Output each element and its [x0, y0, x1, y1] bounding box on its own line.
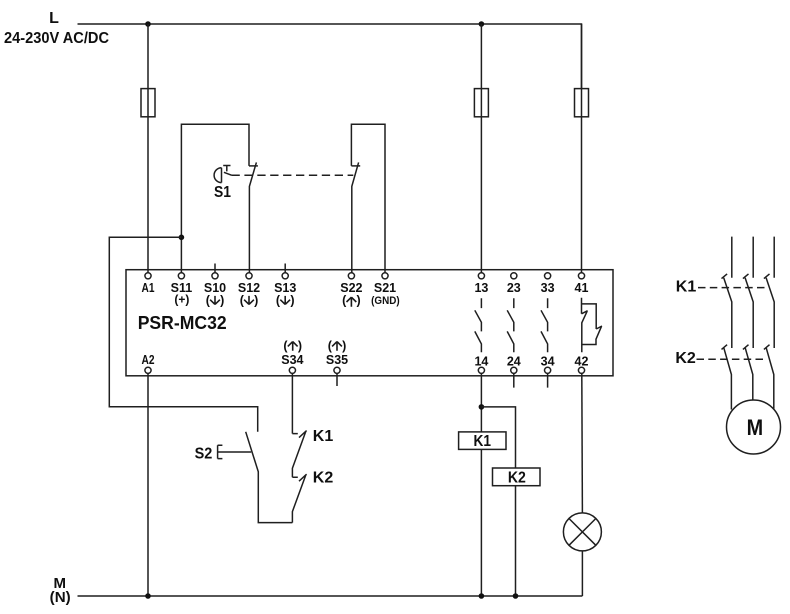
svg-text:24: 24: [507, 354, 521, 368]
svg-text:M: M: [747, 415, 764, 440]
svg-text:S10: S10: [204, 281, 226, 295]
svg-text:24-230V AC/DC: 24-230V AC/DC: [4, 30, 109, 47]
svg-text:S34: S34: [281, 353, 303, 367]
svg-text:): ): [290, 294, 294, 308]
svg-text:S13: S13: [274, 281, 296, 295]
svg-text:K1: K1: [313, 428, 334, 445]
svg-text:K1: K1: [474, 433, 492, 450]
svg-text:13: 13: [474, 281, 488, 295]
svg-text:S1: S1: [214, 184, 231, 201]
svg-text:23: 23: [507, 281, 521, 295]
svg-text:K1: K1: [676, 279, 697, 296]
svg-text:14: 14: [474, 354, 488, 368]
svg-text:): ): [357, 294, 361, 308]
svg-text:S35: S35: [326, 353, 348, 367]
svg-text:(GND): (GND): [371, 295, 400, 307]
svg-text:): ): [254, 294, 258, 308]
svg-text:S12: S12: [238, 281, 260, 295]
svg-text:PSR-MC32: PSR-MC32: [138, 313, 227, 333]
svg-text:34: 34: [541, 354, 555, 368]
svg-text:S21: S21: [374, 281, 396, 295]
svg-text:33: 33: [541, 281, 555, 295]
svg-text:A2: A2: [142, 353, 155, 367]
svg-text:S22: S22: [340, 281, 362, 295]
svg-text:K2: K2: [508, 470, 526, 487]
svg-text:K2: K2: [675, 350, 696, 367]
svg-text:L: L: [49, 10, 59, 27]
svg-text:): ): [298, 339, 302, 353]
svg-text:42: 42: [575, 354, 589, 368]
svg-text:41: 41: [575, 281, 589, 295]
svg-text:(N): (N): [50, 589, 71, 606]
svg-text:S2: S2: [195, 445, 213, 462]
svg-text:): ): [220, 294, 224, 308]
svg-text:A1: A1: [142, 281, 155, 295]
svg-text:(+): (+): [174, 293, 189, 307]
svg-text:): ): [342, 339, 346, 353]
svg-text:K2: K2: [313, 470, 334, 487]
